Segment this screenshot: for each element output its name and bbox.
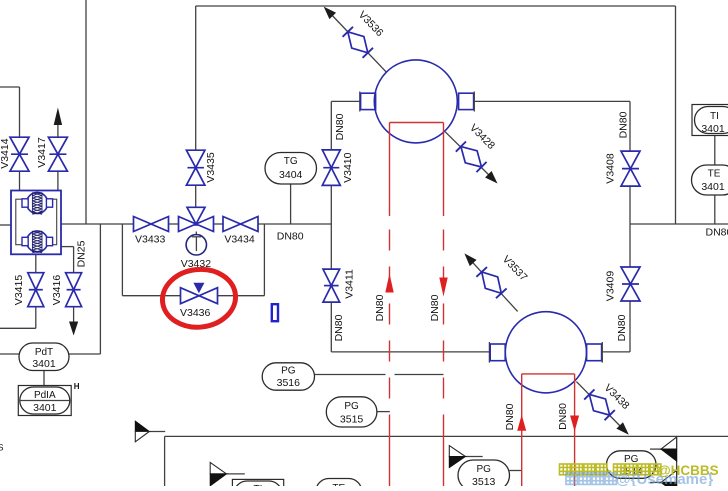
red line box1 left lower solid xyxy=(389,434,391,486)
svg-text:PG: PG xyxy=(281,366,296,377)
svg-text:V3436: V3436 xyxy=(180,307,211,319)
svg-text:H: H xyxy=(74,382,80,391)
svg-text:3401: 3401 xyxy=(701,181,725,193)
wire PdT left stub xyxy=(0,353,19,355)
svg-text:DN80: DN80 xyxy=(429,294,441,321)
svg-text:DN80: DN80 xyxy=(333,314,345,341)
wire right header horizontal xyxy=(630,223,728,225)
red line box1 right dashed xyxy=(443,230,445,431)
svg-text:TI: TI xyxy=(710,111,719,122)
wire bypass right vertical xyxy=(263,224,265,296)
valve V3408 xyxy=(621,151,640,169)
red line box1 left dashed xyxy=(389,230,391,435)
diamond valve V3537 xyxy=(476,266,508,299)
svg-text:DN80: DN80 xyxy=(706,226,728,238)
wire frame left vertical to V3435 xyxy=(195,6,197,150)
svg-text:3401: 3401 xyxy=(32,358,56,370)
wire flag-F tail xyxy=(650,481,661,483)
wire three-way valve to V3434 xyxy=(214,223,224,225)
svg-text:TG: TG xyxy=(284,156,298,167)
svg-text:DN80: DN80 xyxy=(374,294,386,321)
svg-text:3515: 3515 xyxy=(340,413,364,425)
svg-text:V3411: V3411 xyxy=(344,269,356,299)
svg-text:PdIA: PdIA xyxy=(34,390,56,401)
valve V3417 xyxy=(48,137,67,154)
heat exchanger E block outline xyxy=(11,191,61,255)
instrument PdT 3401 xyxy=(19,343,69,371)
wire PG3516 dashed link a xyxy=(315,374,386,376)
svg-text:3401: 3401 xyxy=(33,402,57,414)
heat exchanger element hatch band xyxy=(32,193,42,215)
flag connector A xyxy=(135,421,149,431)
svg-text:V3432: V3432 xyxy=(181,258,212,270)
svg-text:DN80: DN80 xyxy=(618,111,630,138)
heat exchanger element circle xyxy=(27,231,48,252)
valve V3415 xyxy=(28,273,44,290)
instrument PG 3514 xyxy=(607,451,657,479)
red line box1 right solid xyxy=(443,123,445,217)
arrow V3428 down-right xyxy=(485,171,501,187)
wire right header above V3408 xyxy=(629,101,631,151)
blue cursor mark xyxy=(272,304,278,321)
wire flag-C tail xyxy=(227,473,245,475)
blower B1 circle xyxy=(374,60,457,143)
svg-text:DN80: DN80 xyxy=(557,403,569,430)
wire exchanger to V3415 xyxy=(35,254,37,272)
wire diagonal V3428 drain xyxy=(445,132,494,180)
wire V3410 to V3411 xyxy=(330,186,332,270)
wire TG3404 stem xyxy=(290,184,292,224)
svg-text:PG: PG xyxy=(344,401,359,412)
wire left inlet to exchanger xyxy=(0,224,11,226)
wire below V3411 xyxy=(330,302,332,352)
svg-text:V3434: V3434 xyxy=(224,233,255,245)
wire PG3516 dashed link b xyxy=(395,374,444,376)
svg-text:V3417: V3417 xyxy=(36,137,48,168)
wire PG3513 link xyxy=(510,470,522,472)
wire bypass left vertical xyxy=(121,224,123,296)
blower B2 left nozzle xyxy=(488,342,490,363)
wire diagonal V3537 vent xyxy=(468,257,518,312)
actuator V3432 circle xyxy=(186,235,206,255)
valve V3411 xyxy=(323,269,340,286)
wire vertical above V3410 xyxy=(330,101,332,150)
red arrow up on left line xyxy=(385,274,393,293)
actuator V3432 stem xyxy=(195,232,197,236)
diamond valve V3438 xyxy=(583,389,615,421)
wire frame right vertical xyxy=(675,6,677,224)
valve V3434 xyxy=(223,217,241,232)
valve V3409 xyxy=(621,267,640,284)
flag connector C xyxy=(210,462,226,474)
red line box1 right lower solid xyxy=(443,430,445,486)
instrument PG 3513 xyxy=(458,460,510,491)
watermark blue CJK xyxy=(566,473,616,484)
red ellipse highlight around V3436 xyxy=(160,266,239,331)
arrow V3537 up-left xyxy=(461,250,477,266)
wire V3433 to three-way valve xyxy=(169,223,179,225)
three-way valve top port xyxy=(187,207,205,224)
svg-text:3401: 3401 xyxy=(701,123,725,135)
svg-text:3513: 3513 xyxy=(472,476,496,486)
svg-text:DN80: DN80 xyxy=(504,403,516,430)
wire V3416 drain stem xyxy=(73,307,75,323)
heat exchanger element circle xyxy=(27,192,48,213)
svg-text:TE: TE xyxy=(708,168,721,179)
three-way valve center dot xyxy=(194,222,198,226)
wire blower1 left nozzle line xyxy=(331,100,360,102)
wire V3409 down xyxy=(629,301,631,352)
red line box2 left xyxy=(521,374,523,486)
svg-text:@{Usemame}: @{Usemame} xyxy=(616,471,713,486)
valve V3436 actuator triangle xyxy=(194,283,203,292)
heat exchanger element side tabs xyxy=(22,199,28,207)
wire main header from exchanger to V3433 xyxy=(61,223,134,225)
wire top frame horizontal xyxy=(196,5,676,7)
red line box2 top xyxy=(522,373,575,375)
red arrow down on right line xyxy=(439,278,447,297)
wire bottom long horizontal xyxy=(165,435,728,437)
wire flag-B tail xyxy=(465,456,482,458)
wire DN25 branch xyxy=(61,246,74,248)
svg-text:V3410: V3410 xyxy=(342,152,354,183)
valve V3436 xyxy=(181,288,200,304)
valve V3435 xyxy=(186,150,205,168)
svg-text:DN80: DN80 xyxy=(277,231,304,243)
wire bypass bottom right xyxy=(218,295,265,297)
instrument PG 3516 xyxy=(262,363,314,390)
diamond valve V3428 xyxy=(455,141,487,173)
red line box1 left solid xyxy=(389,123,391,217)
red arrow up box2 xyxy=(517,415,526,431)
blower B1 right nozzle xyxy=(459,93,474,109)
wire diagonal to V3536 vent xyxy=(328,11,387,73)
wire junction down to V3409 xyxy=(629,224,631,267)
blower B2 right nozzle xyxy=(587,344,602,361)
arrow drain below V3416 xyxy=(69,322,78,336)
heat exchanger element side tabs xyxy=(22,237,28,245)
instrument TI bottom box xyxy=(232,479,283,491)
wire TE stem xyxy=(714,195,716,224)
wire bypass bottom left xyxy=(122,295,180,297)
svg-text:V3416: V3416 xyxy=(51,275,63,306)
arrow V3438 down-right xyxy=(616,422,632,438)
svg-text:V3409: V3409 xyxy=(605,271,617,302)
wire branch down to PdT xyxy=(99,224,101,354)
arrow vent above V3417 xyxy=(54,108,62,126)
wire V3414 to exchanger xyxy=(19,171,21,190)
wire diagonal V3438 drain xyxy=(576,382,625,432)
svg-text:S: S xyxy=(0,443,4,453)
blower B1 left nozzle xyxy=(359,92,361,112)
instrument TI 3401 box xyxy=(692,105,728,136)
valve V3416 xyxy=(66,273,82,290)
valve V3410 xyxy=(322,150,340,168)
three-way valve body xyxy=(179,217,197,232)
svg-text:V3415: V3415 xyxy=(13,275,25,306)
watermark yellow CJK xyxy=(560,464,571,475)
instrument TE 3401 xyxy=(692,165,728,195)
wire PG3515 link xyxy=(377,411,390,413)
wire flag-A tail xyxy=(149,431,165,433)
wire V3415 down xyxy=(35,307,37,329)
instrument TG 3404 xyxy=(265,153,317,185)
wire V3434 to junction xyxy=(258,223,331,225)
svg-text:DN80: DN80 xyxy=(334,113,346,140)
wire to blower2 left nozzle xyxy=(331,351,489,353)
wire flag-E tail xyxy=(650,448,661,450)
svg-text:3516: 3516 xyxy=(277,377,301,389)
valve V3414 xyxy=(10,137,29,154)
svg-text:V3433: V3433 xyxy=(135,233,166,245)
wire long vertical left xyxy=(85,0,87,224)
instrument PG 3515 xyxy=(326,397,377,427)
wire bottom right vertical xyxy=(676,436,678,486)
red line box1 top xyxy=(390,122,444,124)
svg-text:PdT: PdT xyxy=(35,347,53,358)
red line box2 right xyxy=(574,374,576,486)
flag connector F xyxy=(661,470,677,482)
svg-text:V3408: V3408 xyxy=(605,153,617,184)
instrument TE bottom xyxy=(316,479,362,491)
diamond valve V3536 xyxy=(342,26,374,59)
svg-text:DN25: DN25 xyxy=(76,240,88,267)
heat exchanger element hatch band xyxy=(32,231,42,253)
valve V3433 xyxy=(134,217,152,232)
wire blower2 right nozzle line xyxy=(602,351,630,353)
wire bottom left vertical xyxy=(164,436,166,486)
svg-text:3404: 3404 xyxy=(279,169,303,181)
wire V3417 to exchanger xyxy=(57,171,59,190)
wire V3435 to three-way valve xyxy=(195,185,197,207)
wire TI-TE link xyxy=(714,135,716,165)
blower B2 circle xyxy=(505,312,586,393)
red arrow down box2 xyxy=(570,416,579,432)
svg-text:DN80: DN80 xyxy=(616,314,628,341)
wire V3408 down to junction xyxy=(629,186,631,224)
wire vent stem above V3417 xyxy=(57,121,59,137)
actuator V3432 T mark xyxy=(192,236,202,238)
wire blower1 right nozzle line xyxy=(474,100,630,102)
flag connector B xyxy=(449,446,465,457)
flag connector E xyxy=(661,437,677,449)
svg-text:PG: PG xyxy=(476,464,491,475)
wire PdT to PdIA xyxy=(43,371,45,386)
heat exchanger inner frame xyxy=(16,199,57,245)
svg-text:V3414: V3414 xyxy=(0,138,11,169)
wire inlet to exchanger top-left xyxy=(0,86,20,88)
svg-text:V3435: V3435 xyxy=(205,152,217,183)
arrow vent up-left xyxy=(320,3,336,19)
instrument PdIA 3401 box xyxy=(18,386,71,416)
